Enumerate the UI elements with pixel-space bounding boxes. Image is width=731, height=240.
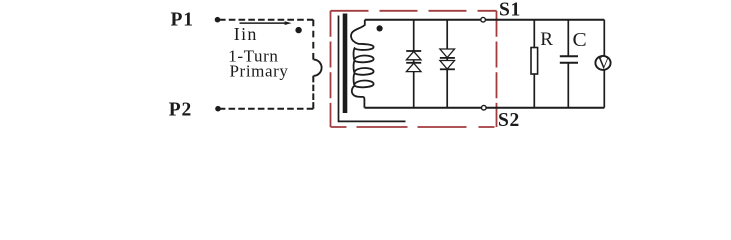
CT module red dashed box left edge: [330, 11, 332, 127]
diode D3 (down): [440, 49, 455, 58]
svg-text:Iin: Iin: [234, 24, 258, 44]
diode D2 (up): [406, 62, 421, 64]
voltmeter V circle: [595, 56, 610, 70]
wire primary right vertical dashed upper: [312, 20, 314, 60]
core window thin line: [339, 16, 406, 122]
secondary polarity dot: [377, 25, 383, 31]
node S2 terminal circle: [482, 105, 487, 110]
svg-text:S2: S2: [498, 110, 520, 131]
diode D4 (down): [440, 61, 455, 70]
svg-text:V: V: [598, 53, 610, 72]
wire secondary bottom rail: [365, 107, 605, 109]
wire primary right vertical dashed lower: [312, 76, 314, 109]
node P1 terminal dot: [215, 17, 221, 23]
wire secondary top rail: [365, 19, 605, 21]
protection diodes branch up (D1,D2) wire: [413, 20, 415, 51]
svg-text:P1: P1: [171, 10, 194, 31]
CT module red dashed box right edge: [496, 11, 498, 127]
core bar: [343, 14, 348, 114]
svg-text:S1: S1: [499, 0, 521, 21]
svg-text:R: R: [540, 29, 553, 50]
CT module red dashed box top edge: [331, 10, 497, 12]
capacitor C plates: [560, 55, 578, 57]
capacitor C wires: [567, 20, 569, 57]
wire primary hop bump: [314, 60, 322, 76]
svg-text:P2: P2: [169, 100, 192, 121]
primary polarity dot: [295, 27, 301, 33]
resistor R body: [531, 48, 538, 75]
node S1 terminal circle: [481, 17, 486, 22]
protection diodes branch down (D3,D4) wire: [446, 20, 448, 49]
resistor R wires: [533, 20, 535, 48]
CT module red dashed box bottom edge: [331, 126, 497, 128]
diode D1 (up): [406, 50, 421, 52]
node P2 terminal dot: [215, 106, 221, 112]
secondary winding L1: [351, 20, 374, 108]
voltmeter V wires: [603, 20, 605, 56]
current arrow Iin: [240, 22, 287, 24]
svg-text:Primary: Primary: [230, 61, 289, 80]
wire primary top dashed: [219, 19, 313, 21]
wire primary bottom dashed: [219, 108, 313, 110]
svg-text:C: C: [573, 30, 587, 51]
